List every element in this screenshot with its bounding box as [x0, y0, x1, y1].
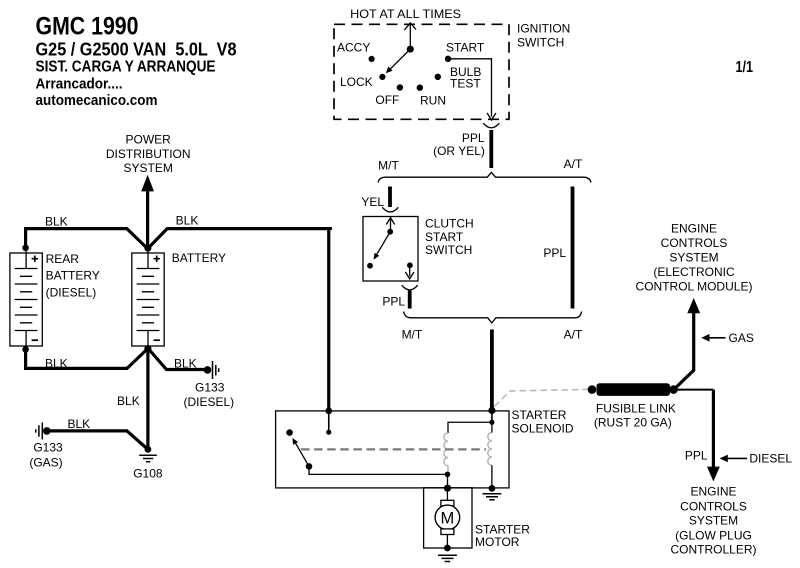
rear battery box — [10, 253, 42, 346]
wire battery- down to G108 — [146, 350, 149, 447]
main battery minus sign — [154, 339, 160, 341]
G108 ground dot — [145, 446, 152, 453]
svg-text:BLK: BLK — [45, 214, 68, 228]
rear battery terminal dot + — [22, 245, 29, 252]
svg-text:STARTER: STARTER — [512, 408, 567, 422]
lower merge brace M/T - A/T — [404, 312, 582, 323]
arrowhead to power distribution system — [141, 175, 154, 192]
junction dot battery negative — [144, 345, 151, 352]
contact dot RUN — [417, 85, 423, 91]
svg-text:SWITCH: SWITCH — [517, 36, 564, 50]
hold-in coil leads — [491, 422, 493, 488]
svg-text:BATTERY: BATTERY — [46, 269, 100, 283]
main battery plus sign — [154, 256, 160, 262]
motor brush bottom — [441, 529, 454, 535]
svg-text:BATTERY: BATTERY — [172, 251, 226, 265]
wire from output contact down — [409, 266, 411, 276]
stub from battery feed into box — [328, 411, 330, 431]
switch lower-left contact dot — [367, 263, 373, 269]
svg-text:M/T: M/T — [378, 158, 399, 172]
arrowhead of rotor arm (filled) — [386, 67, 393, 74]
svg-text:A/T: A/T — [564, 328, 583, 342]
wire battery+ to solenoid feed — [149, 227, 331, 410]
G133 diesel stud dot — [204, 366, 212, 374]
svg-text:POWER: POWER — [126, 133, 172, 147]
svg-text:OFF: OFF — [375, 93, 399, 107]
rotor arm toward LOCK — [390, 49, 411, 70]
G133 gas stud bars — [36, 423, 43, 440]
connector half-circle under ignition output — [483, 123, 499, 128]
svg-text:(DIESEL): (DIESEL) — [183, 395, 234, 409]
svg-text:DIESEL: DIESEL — [749, 452, 792, 466]
G133 gas stud dot — [43, 427, 51, 435]
arrowhead to engine controls (gas) — [687, 298, 700, 313]
svg-text:SYSTEM: SYSTEM — [669, 250, 718, 264]
contact dot START — [445, 56, 451, 62]
wire fusible link right to diesel branch — [674, 389, 714, 391]
svg-text:PPL: PPL — [382, 294, 405, 308]
wire battery to power distribution — [146, 191, 149, 248]
svg-text:SWITCH: SWITCH — [425, 243, 472, 257]
rear battery terminal dot - — [22, 346, 29, 353]
svg-text:SYSTEM: SYSTEM — [124, 161, 173, 175]
svg-text:START: START — [425, 230, 464, 244]
svg-text:CLUTCH: CLUTCH — [425, 217, 474, 231]
svg-text:A/T: A/T — [564, 157, 583, 171]
solenoid terminal dot (battery) — [326, 430, 331, 435]
contact dot LOCK — [379, 74, 385, 80]
wire battery- to G133 diesel — [149, 350, 204, 370]
junction dot battery positive — [144, 245, 151, 252]
svg-text:ENGINE: ENGINE — [671, 221, 717, 235]
stub from start feed into box — [491, 411, 493, 421]
contact dot BULB TEST — [435, 74, 441, 80]
wire PPL stub below clutch switch — [408, 291, 412, 309]
fusible link body — [597, 383, 671, 396]
main battery plates — [137, 249, 160, 350]
junction dot coil/contact — [445, 472, 451, 478]
contact dot ACCY — [369, 56, 375, 62]
rear battery plates — [15, 249, 38, 350]
svg-text:MOTOR: MOTOR — [475, 535, 520, 549]
motor ground dot — [444, 545, 451, 552]
label DIESEL with arrow — [720, 455, 728, 463]
svg-text:BLK: BLK — [67, 417, 90, 431]
svg-text:BLK: BLK — [117, 394, 140, 408]
starter solenoid box — [276, 411, 509, 488]
svg-text:PPL: PPL — [685, 449, 708, 463]
arrowhead to glow plug controller (diesel) — [707, 467, 720, 482]
G133 diesel stud bars — [213, 361, 219, 379]
arrowhead of solenoid arm (filled) — [292, 438, 298, 445]
svg-text:IGNITION: IGNITION — [517, 21, 570, 35]
svg-text:M: M — [441, 509, 455, 527]
fusible link right dot — [669, 385, 678, 394]
wire A/T PPL — [571, 187, 575, 309]
wire from start terminal to pull-in coil — [448, 422, 492, 433]
switch output contact dot — [407, 262, 413, 268]
svg-text:(RUST 20 GA): (RUST 20 GA) — [594, 416, 672, 430]
svg-text:START: START — [446, 41, 485, 55]
rear battery plus sign — [32, 256, 38, 262]
svg-text:LOCK: LOCK — [340, 75, 373, 89]
fusible link left dot — [588, 385, 597, 394]
wire from START contact right then down — [448, 59, 492, 117]
wire PPL (OR YEL) stub — [489, 130, 493, 168]
svg-text:ACCY: ACCY — [337, 41, 370, 55]
ground dot of hold-in coil — [489, 485, 496, 492]
coil tail to lower junction — [447, 466, 449, 474]
wire down to box bottom — [447, 474, 449, 487]
wire YEL stub — [388, 187, 392, 208]
ignition switch box (dashed) — [334, 24, 509, 119]
ground G (solenoid) — [483, 494, 502, 500]
solenoid switch arm — [295, 443, 309, 467]
wire motor to ground — [446, 535, 448, 549]
svg-text:G25 / G2500 VAN 5.0L V8: G25 / G2500 VAN 5.0L V8 — [36, 40, 237, 60]
starter motor box — [424, 488, 472, 548]
svg-text:automecanico.com: automecanico.com — [36, 92, 158, 109]
svg-text:TEST: TEST — [450, 77, 481, 91]
switch arm diagonal — [376, 232, 390, 256]
arrowhead down at box bottom — [487, 113, 496, 120]
svg-text:(GAS): (GAS) — [29, 455, 62, 469]
svg-text:PPL: PPL — [462, 131, 485, 145]
svg-text:PPL: PPL — [543, 246, 566, 260]
solenoid switch moving contact dot — [306, 463, 313, 470]
svg-text:(GLOW PLUG: (GLOW PLUG — [675, 528, 752, 542]
contact dot OFF — [397, 84, 403, 90]
svg-text:GAS: GAS — [729, 331, 754, 345]
svg-text:HOT AT ALL TIMES: HOT AT ALL TIMES — [350, 7, 461, 21]
junction dot motor feed on box bottom — [444, 485, 451, 492]
junction dot battery feed on box top — [325, 408, 332, 415]
wire rear battery- to battery- — [26, 350, 147, 369]
switch arrow up to box top — [390, 219, 392, 231]
svg-text:(ELECTRONIC: (ELECTRONIC — [653, 265, 735, 279]
arrowhead down at box bottom — [406, 272, 414, 279]
upper split brace M/T - A/T — [378, 172, 591, 182]
rear battery minus sign — [32, 339, 38, 341]
clutch start switch box — [363, 217, 418, 282]
wire G133 gas to G108 — [47, 431, 147, 448]
wire PPL down to glow plug controller — [712, 390, 715, 469]
svg-text:REAR: REAR — [46, 252, 80, 266]
wire fusible link up to ECM (gas) — [674, 311, 694, 389]
svg-text:FUSIBLE LINK: FUSIBLE LINK — [596, 401, 676, 415]
mechanical linkage dashed line — [301, 448, 486, 450]
junction dot merged wire on box top — [488, 407, 495, 414]
motor M circle — [435, 505, 460, 530]
wire from moving contact to motor feed — [309, 467, 448, 475]
pull-in coil (left, gray) — [444, 433, 448, 466]
arrowhead of switch arm (filled) — [374, 253, 380, 260]
svg-text:RUN: RUN — [420, 93, 446, 107]
switch upper contact dot — [387, 229, 393, 235]
svg-text:CONTROLLER): CONTROLLER) — [670, 543, 756, 557]
svg-text:(OR YEL): (OR YEL) — [433, 144, 485, 158]
svg-text:(DIESEL): (DIESEL) — [46, 286, 97, 300]
svg-text:1/1: 1/1 — [736, 59, 754, 76]
motor brush top — [441, 500, 454, 506]
connector half-circle below clutch switch — [402, 285, 418, 290]
ground G (motor) — [438, 555, 457, 561]
svg-text:CONTROL MODULE): CONTROL MODULE) — [636, 279, 753, 293]
pivot dot of rotor — [407, 46, 414, 53]
svg-text:BLK: BLK — [176, 214, 199, 228]
wire rotor feed up to HOT AT ALL TIMES — [409, 24, 411, 49]
wire into motor — [446, 488, 448, 500]
svg-text:CONTROLS: CONTROLS — [661, 236, 728, 250]
svg-text:G108: G108 — [133, 467, 163, 481]
svg-text:Arrancador....: Arrancador.... — [36, 76, 123, 93]
svg-text:GMC 1990: GMC 1990 — [36, 13, 139, 41]
svg-text:M/T: M/T — [402, 328, 423, 342]
ground G108 — [139, 455, 157, 461]
hold-in coil (right, gray) — [488, 433, 492, 466]
svg-text:G133: G133 — [33, 441, 63, 455]
main battery box — [132, 253, 164, 346]
svg-text:DISTRIBUTION: DISTRIBUTION — [106, 147, 191, 161]
label GAS with arrow — [701, 334, 709, 342]
svg-text:YEL: YEL — [361, 195, 384, 209]
merged wire down to solenoid — [490, 330, 494, 411]
dashed link to fusible link (gray) — [494, 389, 590, 406]
svg-text:CONTROLS: CONTROLS — [680, 500, 747, 514]
solenoid terminal dot (start) — [489, 420, 494, 425]
svg-text:ENGINE: ENGINE — [690, 484, 736, 498]
svg-text:SOLENOID: SOLENOID — [512, 421, 574, 435]
arrowhead up at box top — [404, 23, 416, 30]
svg-text:SIST. CARGA Y ARRANQUE: SIST. CARGA Y ARRANQUE — [36, 59, 216, 76]
connector half-circle above clutch switch — [382, 207, 398, 212]
solenoid switch fixed contact dot — [286, 429, 293, 436]
svg-text:SYSTEM: SYSTEM — [689, 514, 738, 528]
wire battery+ to rear battery+ — [26, 229, 147, 248]
svg-text:G133: G133 — [195, 381, 225, 395]
